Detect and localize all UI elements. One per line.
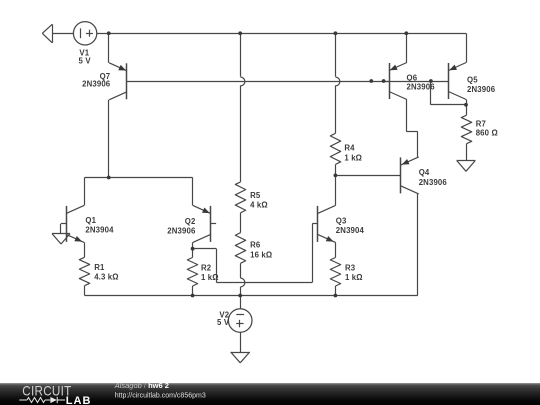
svg-text:Q4: Q4 [419, 168, 430, 177]
svg-text:2N3906: 2N3906 [419, 178, 448, 187]
svg-text:Q6: Q6 [407, 73, 418, 82]
svg-text:R2: R2 [201, 263, 212, 272]
svg-text:LAB: LAB [66, 395, 92, 405]
svg-text:16 kΩ: 16 kΩ [250, 250, 272, 259]
svg-text:Q3: Q3 [336, 217, 347, 226]
svg-text:R4: R4 [344, 144, 355, 153]
svg-text:4.3 kΩ: 4.3 kΩ [94, 273, 119, 282]
svg-text:2N3906: 2N3906 [82, 80, 111, 89]
svg-text:2N3906: 2N3906 [467, 85, 496, 94]
svg-text:Q1: Q1 [85, 216, 96, 225]
svg-text:2N3904: 2N3904 [336, 226, 365, 235]
svg-text:860 Ω: 860 Ω [476, 129, 498, 138]
svg-text:Alsagob / hw6 2: Alsagob / hw6 2 [114, 383, 169, 390]
svg-text:2N3904: 2N3904 [85, 225, 114, 234]
svg-text:Q2: Q2 [185, 217, 196, 226]
svg-text:4 kΩ: 4 kΩ [250, 201, 268, 210]
svg-text:1 kΩ: 1 kΩ [344, 153, 362, 162]
svg-text:R5: R5 [250, 191, 261, 200]
svg-text:R7: R7 [476, 119, 486, 128]
svg-text:5 V: 5 V [79, 56, 92, 65]
svg-text:Q5: Q5 [467, 76, 478, 85]
svg-text:R6: R6 [250, 241, 261, 250]
svg-text:CIRCUIT: CIRCUIT [22, 384, 71, 399]
svg-text:R3: R3 [345, 263, 356, 272]
svg-text:5 V: 5 V [217, 318, 230, 327]
svg-text:2N3906: 2N3906 [167, 226, 196, 235]
svg-text:http://circuitlab.com/c856pm3: http://circuitlab.com/c856pm3 [115, 393, 206, 400]
svg-text:R1: R1 [94, 263, 105, 272]
svg-text:1 kΩ: 1 kΩ [345, 273, 363, 282]
